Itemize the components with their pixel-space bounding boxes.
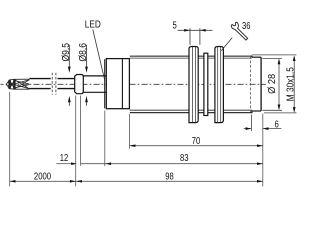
dimension 12 arrows xyxy=(71,162,77,165)
washer xyxy=(204,53,208,115)
dimension M30x1.5 xyxy=(252,55,296,113)
dimension diameter 9.5 xyxy=(61,43,72,106)
svg-text:83: 83 xyxy=(180,153,189,164)
wrench icon SW36 xyxy=(231,22,247,40)
hex nut 1 xyxy=(189,47,198,123)
svg-text:Ø9,5: Ø9,5 xyxy=(61,43,72,62)
dimension diameter 8.6 xyxy=(78,43,89,106)
svg-text:98: 98 xyxy=(165,172,174,183)
rear end cap collar xyxy=(106,59,129,109)
wrench leader line xyxy=(221,38,232,51)
centerline main axis xyxy=(1,83,267,85)
threaded barrel M30 body xyxy=(130,56,252,112)
collar left face line xyxy=(104,59,106,108)
dimension diameter 28 xyxy=(262,58,282,110)
front tip diameter 28 xyxy=(252,56,261,114)
cable sheath left section xyxy=(29,79,50,89)
dimension 98 arrows xyxy=(76,180,82,183)
nut 2 face edges xyxy=(217,47,219,122)
svg-text:Ø8,6: Ø8,6 xyxy=(78,43,89,62)
svg-text:12: 12 xyxy=(60,153,69,164)
cable grommet (diameter 9.5) xyxy=(75,75,84,94)
dimension 98 and 2000 row xyxy=(10,92,263,186)
dimension 83 arrows xyxy=(105,162,111,165)
dimension 6 (front tip) xyxy=(244,115,281,132)
svg-text:2000: 2000 xyxy=(34,171,52,182)
LED leader line xyxy=(93,30,105,81)
cable break symbol xyxy=(52,73,56,95)
dimension 2000 arrows xyxy=(10,180,16,183)
svg-text:5: 5 xyxy=(173,20,178,31)
wire strands (cable end) xyxy=(6,79,29,89)
svg-text:Ø 28: Ø 28 xyxy=(267,74,278,94)
dimension 83 and 12 row xyxy=(56,96,262,187)
rear tube (diameter 8.6) xyxy=(83,76,106,92)
thread end dashed line xyxy=(250,56,252,112)
svg-text:36: 36 xyxy=(242,21,251,32)
nut 1 face edges xyxy=(191,47,193,122)
svg-text:6: 6 xyxy=(275,120,280,131)
dimension 70 xyxy=(130,114,263,149)
svg-text:70: 70 xyxy=(192,136,201,147)
extension line front face xyxy=(262,114,264,187)
cable sheath right section xyxy=(58,79,75,89)
dimension 5 (nut width) xyxy=(178,28,213,45)
svg-text:LED: LED xyxy=(85,19,101,30)
collar seam line xyxy=(121,59,123,108)
hex nut 2 xyxy=(215,47,224,123)
svg-text:M 30x1,5: M 30x1,5 xyxy=(286,67,297,101)
